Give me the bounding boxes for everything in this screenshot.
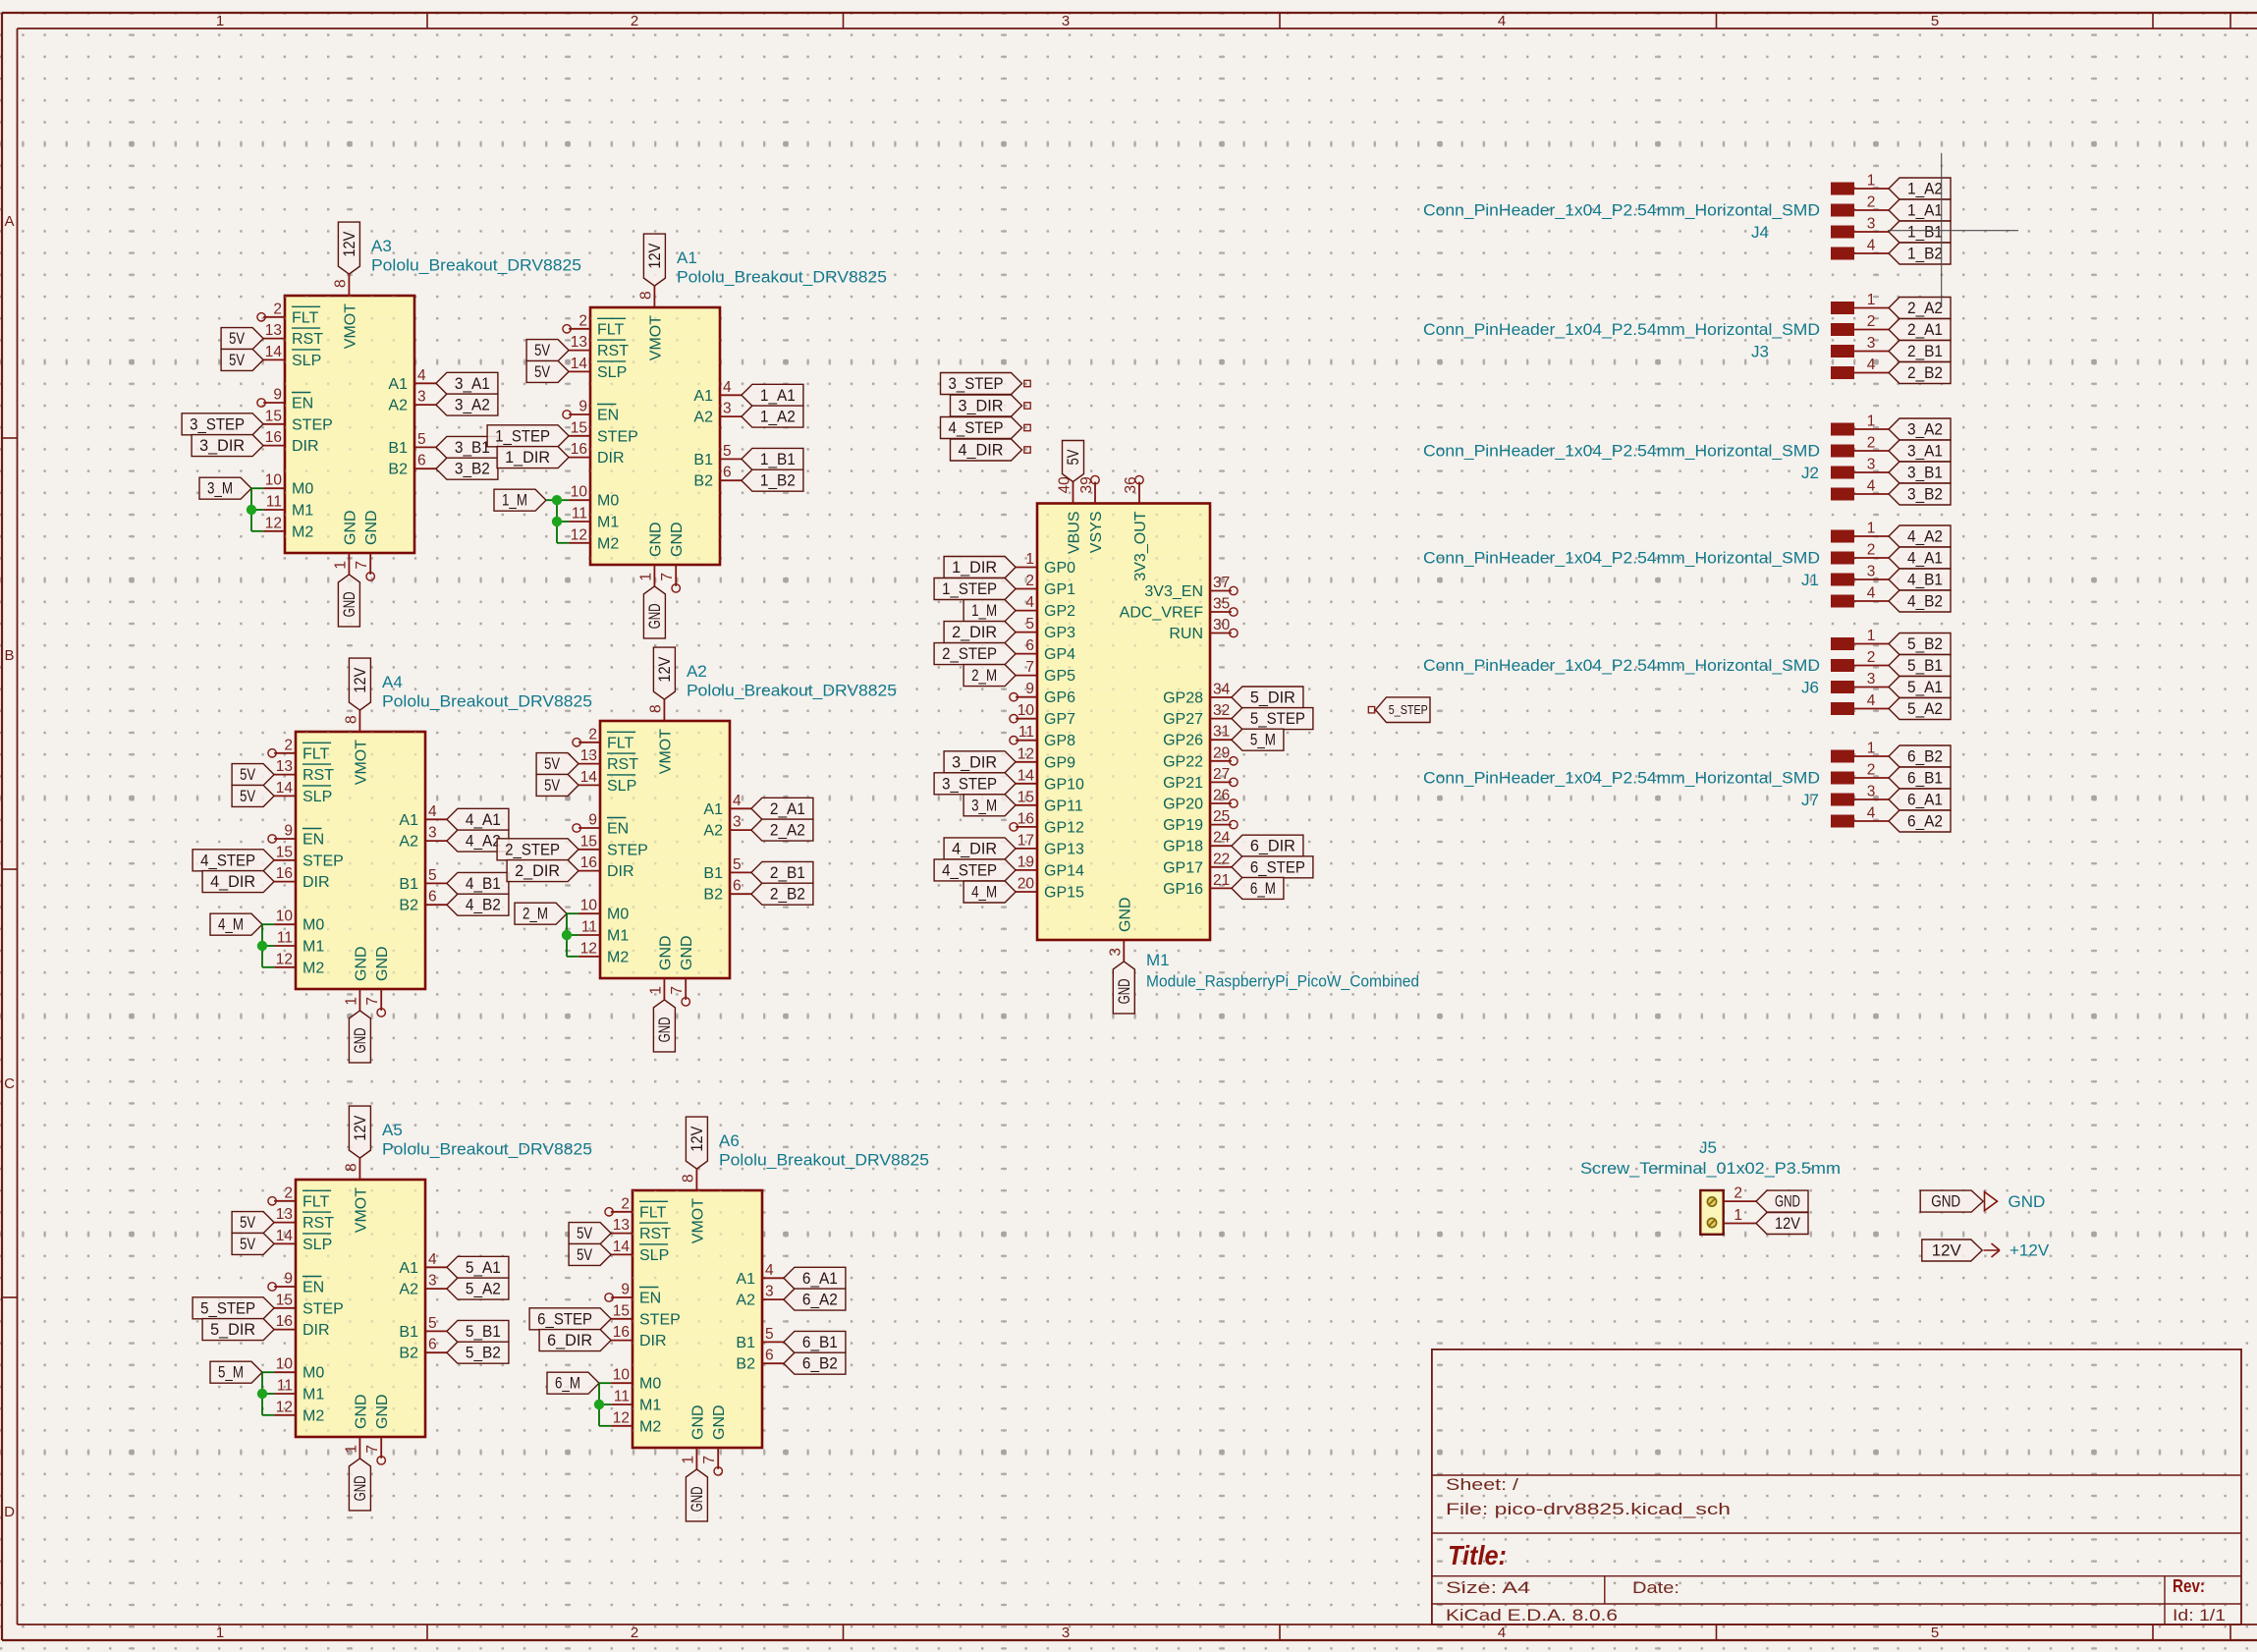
svg-text:7: 7 bbox=[701, 1456, 718, 1464]
svg-text:6: 6 bbox=[733, 878, 742, 895]
svg-text:1: 1 bbox=[1867, 173, 1876, 190]
svg-text:14: 14 bbox=[1018, 767, 1035, 784]
svg-text:Conn_PinHeader_1x04_P2.54mm_Ho: Conn_PinHeader_1x04_P2.54mm_Horizontal_S… bbox=[1423, 769, 1820, 788]
svg-text:VBUS: VBUS bbox=[1067, 512, 1083, 555]
svg-text:12: 12 bbox=[265, 515, 282, 531]
svg-text:ADC_VREF: ADC_VREF bbox=[1120, 605, 1204, 622]
svg-text:Module_RaspberryPi_PicoW_Combi: Module_RaspberryPi_PicoW_Combined bbox=[1146, 972, 1419, 991]
svg-text:GND: GND bbox=[352, 1027, 369, 1053]
svg-text:RST: RST bbox=[292, 331, 323, 348]
svg-text:B2: B2 bbox=[693, 473, 713, 490]
svg-text:4_DIR: 4_DIR bbox=[210, 873, 255, 891]
svg-text:5V: 5V bbox=[544, 755, 560, 773]
svg-text:21: 21 bbox=[1213, 872, 1230, 889]
svg-text:5_M: 5_M bbox=[1250, 732, 1276, 749]
svg-text:SLP: SLP bbox=[292, 353, 321, 369]
svg-text:Conn_PinHeader_1x04_P2.54mm_Ho: Conn_PinHeader_1x04_P2.54mm_Horizontal_S… bbox=[1423, 442, 1820, 461]
svg-text:3_A2: 3_A2 bbox=[1907, 421, 1943, 439]
svg-text:37: 37 bbox=[1213, 575, 1230, 591]
svg-text:GND: GND bbox=[342, 510, 358, 545]
svg-text:3: 3 bbox=[1867, 564, 1876, 580]
svg-text:4: 4 bbox=[428, 1251, 437, 1268]
svg-text:4_STEP: 4_STEP bbox=[949, 419, 1004, 437]
svg-text:5: 5 bbox=[1931, 1624, 1939, 1641]
svg-text:GP5: GP5 bbox=[1044, 668, 1075, 685]
svg-text:3: 3 bbox=[1062, 13, 1070, 29]
svg-text:1_STEP: 1_STEP bbox=[942, 580, 997, 598]
svg-text:5: 5 bbox=[1931, 13, 1939, 29]
svg-text:1_B1: 1_B1 bbox=[760, 451, 796, 468]
svg-text:2_STEP: 2_STEP bbox=[942, 645, 997, 663]
svg-text:10: 10 bbox=[265, 472, 283, 489]
svg-text:1: 1 bbox=[1734, 1207, 1742, 1224]
svg-text:1: 1 bbox=[216, 1624, 224, 1641]
svg-text:3V3_EN: 3V3_EN bbox=[1144, 583, 1203, 600]
svg-text:3: 3 bbox=[1867, 671, 1876, 688]
svg-text:5_M: 5_M bbox=[218, 1364, 244, 1382]
svg-text:GND: GND bbox=[669, 522, 686, 557]
svg-text:15: 15 bbox=[613, 1302, 630, 1319]
svg-text:2_STEP: 2_STEP bbox=[505, 841, 560, 858]
svg-text:1: 1 bbox=[343, 1445, 359, 1454]
svg-text:A5: A5 bbox=[382, 1121, 403, 1139]
svg-text:6: 6 bbox=[723, 465, 732, 481]
svg-text:16: 16 bbox=[1018, 810, 1034, 827]
svg-text:2_B1: 2_B1 bbox=[770, 864, 805, 882]
svg-text:EN: EN bbox=[303, 1280, 324, 1296]
svg-text:KiCad E.D.A. 8.0.6: KiCad E.D.A. 8.0.6 bbox=[1446, 1607, 1618, 1624]
svg-text:40: 40 bbox=[1057, 476, 1073, 494]
svg-text:2: 2 bbox=[1867, 313, 1876, 330]
svg-text:6_M: 6_M bbox=[555, 1375, 580, 1393]
svg-text:GND: GND bbox=[711, 1404, 728, 1440]
svg-text:8: 8 bbox=[680, 1174, 696, 1183]
svg-text:4: 4 bbox=[1867, 585, 1876, 602]
svg-text:5: 5 bbox=[733, 856, 742, 873]
svg-text:4: 4 bbox=[1867, 692, 1876, 709]
svg-text:5_A2: 5_A2 bbox=[1907, 700, 1943, 718]
svg-text:14: 14 bbox=[580, 769, 598, 786]
svg-text:1_B2: 1_B2 bbox=[760, 472, 796, 490]
svg-text:J1: J1 bbox=[1801, 571, 1819, 589]
svg-text:3_STEP: 3_STEP bbox=[942, 775, 997, 793]
svg-text:4: 4 bbox=[417, 367, 426, 384]
svg-text:FLT: FLT bbox=[303, 1193, 329, 1210]
svg-text:2_B1: 2_B1 bbox=[1907, 343, 1943, 360]
svg-text:Sheet: /: Sheet: / bbox=[1446, 1476, 1519, 1494]
svg-text:4: 4 bbox=[1498, 1624, 1506, 1641]
svg-text:14: 14 bbox=[613, 1239, 631, 1255]
svg-text:3: 3 bbox=[428, 825, 437, 842]
svg-text:GND: GND bbox=[1931, 1193, 1960, 1211]
svg-text:FLT: FLT bbox=[639, 1204, 666, 1221]
svg-text:Conn_PinHeader_1x04_P2.54mm_Ho: Conn_PinHeader_1x04_P2.54mm_Horizontal_S… bbox=[1423, 549, 1820, 568]
svg-text:5V: 5V bbox=[534, 342, 550, 359]
svg-text:J4: J4 bbox=[1751, 223, 1769, 242]
svg-text:5V: 5V bbox=[229, 352, 245, 369]
svg-text:7: 7 bbox=[364, 997, 381, 1006]
svg-text:7: 7 bbox=[669, 986, 686, 995]
svg-text:GP26: GP26 bbox=[1163, 733, 1203, 749]
svg-text:6_M: 6_M bbox=[1250, 880, 1276, 898]
svg-text:M0: M0 bbox=[292, 481, 313, 498]
svg-text:1: 1 bbox=[343, 997, 359, 1006]
svg-text:M1: M1 bbox=[303, 1387, 324, 1404]
svg-text:M1: M1 bbox=[1146, 951, 1170, 969]
svg-text:Pololu_Breakout_DRV8825: Pololu_Breakout_DRV8825 bbox=[382, 1140, 592, 1159]
svg-text:3_B1: 3_B1 bbox=[455, 439, 490, 457]
svg-text:7: 7 bbox=[1025, 659, 1034, 676]
svg-text:15: 15 bbox=[276, 1292, 293, 1308]
svg-text:6_B1: 6_B1 bbox=[1907, 770, 1943, 788]
svg-text:STEP: STEP bbox=[292, 416, 333, 433]
svg-text:12V: 12V bbox=[1932, 1242, 1961, 1260]
svg-text:6_A1: 6_A1 bbox=[1907, 792, 1943, 809]
svg-text:2_M: 2_M bbox=[971, 667, 997, 685]
svg-text:5V: 5V bbox=[577, 1225, 592, 1242]
svg-text:A1: A1 bbox=[399, 1260, 418, 1277]
svg-text:3_B1: 3_B1 bbox=[1907, 465, 1943, 482]
svg-text:GND: GND bbox=[1775, 1193, 1800, 1211]
svg-text:1_A2: 1_A2 bbox=[760, 409, 796, 426]
svg-text:1: 1 bbox=[216, 13, 224, 29]
svg-text:STEP: STEP bbox=[303, 853, 344, 869]
svg-text:39: 39 bbox=[1078, 476, 1095, 493]
svg-text:B2: B2 bbox=[703, 887, 723, 904]
svg-text:Id: 1/1: Id: 1/1 bbox=[2173, 1607, 2226, 1624]
svg-text:2_A2: 2_A2 bbox=[770, 822, 805, 840]
svg-text:13: 13 bbox=[613, 1217, 630, 1234]
svg-text:8: 8 bbox=[343, 715, 359, 724]
svg-text:12: 12 bbox=[613, 1409, 630, 1426]
svg-text:1_B1: 1_B1 bbox=[1907, 224, 1943, 242]
svg-text:A2: A2 bbox=[399, 1282, 418, 1298]
svg-text:5V: 5V bbox=[1065, 450, 1082, 466]
svg-text:STEP: STEP bbox=[607, 842, 648, 858]
svg-text:3: 3 bbox=[1867, 216, 1876, 233]
svg-text:11: 11 bbox=[277, 1378, 293, 1395]
svg-text:4: 4 bbox=[1025, 594, 1034, 611]
svg-text:GP27: GP27 bbox=[1163, 711, 1203, 728]
svg-text:M1: M1 bbox=[292, 503, 313, 520]
svg-text:13: 13 bbox=[276, 1206, 293, 1223]
svg-text:RST: RST bbox=[639, 1226, 671, 1242]
svg-text:GND: GND bbox=[657, 935, 674, 970]
svg-text:27: 27 bbox=[1213, 766, 1230, 783]
svg-text:4_A2: 4_A2 bbox=[466, 833, 501, 851]
svg-text:31: 31 bbox=[1213, 724, 1230, 741]
svg-text:SLP: SLP bbox=[597, 364, 627, 381]
svg-text:17: 17 bbox=[1018, 832, 1034, 849]
svg-text:2: 2 bbox=[631, 13, 638, 29]
svg-text:5_B2: 5_B2 bbox=[1907, 635, 1943, 653]
svg-text:25: 25 bbox=[1213, 808, 1230, 825]
svg-text:A2: A2 bbox=[399, 834, 418, 851]
svg-text:3_M: 3_M bbox=[207, 480, 233, 498]
svg-text:GP2: GP2 bbox=[1044, 603, 1075, 620]
svg-text:FLT: FLT bbox=[303, 745, 329, 762]
svg-text:30: 30 bbox=[1213, 617, 1231, 633]
svg-text:11: 11 bbox=[614, 1389, 630, 1405]
svg-text:2: 2 bbox=[1867, 194, 1876, 211]
svg-text:35: 35 bbox=[1213, 596, 1230, 613]
svg-text:2_DIR: 2_DIR bbox=[952, 624, 997, 641]
svg-text:4: 4 bbox=[1867, 805, 1876, 822]
svg-text:DIR: DIR bbox=[292, 438, 319, 455]
svg-text:11: 11 bbox=[1018, 724, 1034, 741]
svg-text:9: 9 bbox=[621, 1282, 630, 1298]
svg-text:4: 4 bbox=[428, 803, 437, 820]
svg-text:2: 2 bbox=[284, 737, 293, 753]
svg-text:12: 12 bbox=[1018, 745, 1034, 762]
svg-text:FLT: FLT bbox=[607, 735, 633, 751]
svg-text:A4: A4 bbox=[382, 673, 403, 691]
svg-text:2: 2 bbox=[1867, 762, 1876, 779]
svg-text:26: 26 bbox=[1213, 788, 1230, 804]
svg-text:11: 11 bbox=[266, 494, 282, 511]
svg-text:16: 16 bbox=[265, 429, 282, 446]
svg-text:6_B2: 6_B2 bbox=[1907, 748, 1943, 766]
svg-text:GP20: GP20 bbox=[1163, 797, 1203, 813]
svg-text:6_B2: 6_B2 bbox=[802, 1355, 838, 1373]
svg-text:8: 8 bbox=[343, 1163, 359, 1172]
svg-text:Pololu_Breakout_DRV8825: Pololu_Breakout_DRV8825 bbox=[371, 256, 581, 275]
svg-text:5_A1: 5_A1 bbox=[1907, 679, 1943, 696]
svg-text:GND: GND bbox=[688, 1486, 706, 1512]
svg-text:GP0: GP0 bbox=[1044, 560, 1075, 577]
svg-text:GP12: GP12 bbox=[1044, 819, 1084, 836]
svg-text:2_B2: 2_B2 bbox=[1907, 364, 1943, 382]
svg-text:EN: EN bbox=[639, 1291, 661, 1307]
svg-text:4_B1: 4_B1 bbox=[466, 875, 501, 893]
svg-text:4: 4 bbox=[723, 379, 732, 396]
svg-text:4_B2: 4_B2 bbox=[466, 897, 501, 914]
svg-text:GP28: GP28 bbox=[1163, 690, 1203, 707]
svg-text:GP17: GP17 bbox=[1163, 859, 1203, 876]
svg-text:4: 4 bbox=[1867, 238, 1876, 254]
svg-text:16: 16 bbox=[571, 441, 587, 458]
svg-text:1: 1 bbox=[1867, 521, 1876, 537]
svg-text:B2: B2 bbox=[388, 462, 408, 478]
svg-text:A2: A2 bbox=[703, 823, 723, 840]
svg-text:M2: M2 bbox=[639, 1418, 661, 1435]
svg-text:4: 4 bbox=[765, 1262, 774, 1279]
svg-text:M2: M2 bbox=[607, 949, 629, 965]
svg-text:3: 3 bbox=[1062, 1624, 1070, 1641]
svg-text:14: 14 bbox=[265, 344, 283, 360]
svg-text:4_DIR: 4_DIR bbox=[952, 840, 997, 857]
svg-text:1: 1 bbox=[1025, 551, 1034, 568]
svg-text:4: 4 bbox=[1498, 13, 1506, 29]
svg-text:7: 7 bbox=[354, 561, 370, 570]
svg-text:GP14: GP14 bbox=[1044, 862, 1084, 879]
svg-text:GND: GND bbox=[374, 946, 391, 981]
svg-text:FLT: FLT bbox=[597, 321, 624, 338]
svg-text:13: 13 bbox=[580, 747, 597, 764]
svg-text:12: 12 bbox=[276, 1399, 293, 1415]
svg-text:2: 2 bbox=[1867, 649, 1876, 666]
svg-text:M0: M0 bbox=[597, 493, 619, 510]
svg-text:10: 10 bbox=[276, 909, 294, 925]
svg-text:4_M: 4_M bbox=[971, 884, 997, 902]
svg-text:RST: RST bbox=[303, 1215, 334, 1232]
svg-text:GP6: GP6 bbox=[1044, 689, 1075, 706]
svg-text:Date:: Date: bbox=[1632, 1579, 1679, 1597]
svg-text:3_A1: 3_A1 bbox=[455, 375, 490, 393]
svg-text:4_A1: 4_A1 bbox=[466, 811, 501, 829]
svg-text:5: 5 bbox=[428, 867, 437, 884]
svg-text:GP22: GP22 bbox=[1163, 753, 1203, 770]
svg-text:GND: GND bbox=[2009, 1192, 2046, 1211]
svg-text:GND: GND bbox=[679, 935, 695, 970]
svg-text:A2: A2 bbox=[687, 662, 707, 681]
svg-text:J7: J7 bbox=[1801, 791, 1819, 809]
svg-text:Title:: Title: bbox=[1448, 1540, 1507, 1570]
svg-text:M0: M0 bbox=[303, 1365, 324, 1382]
svg-text:File: pico-drv8825.kicad_sch: File: pico-drv8825.kicad_sch bbox=[1446, 1501, 1731, 1518]
svg-text:2_DIR: 2_DIR bbox=[515, 862, 560, 880]
svg-text:GND: GND bbox=[646, 603, 664, 629]
svg-text:3: 3 bbox=[1107, 948, 1124, 957]
svg-text:8: 8 bbox=[332, 279, 349, 288]
svg-text:RST: RST bbox=[607, 756, 638, 773]
svg-text:2_B2: 2_B2 bbox=[770, 886, 805, 904]
svg-text:A1: A1 bbox=[388, 376, 408, 393]
svg-text:16: 16 bbox=[276, 1313, 293, 1330]
svg-text:EN: EN bbox=[303, 832, 324, 849]
svg-text:1_A2: 1_A2 bbox=[1907, 181, 1943, 198]
svg-text:VSYS: VSYS bbox=[1088, 512, 1105, 554]
svg-text:5_A1: 5_A1 bbox=[466, 1259, 501, 1277]
svg-text:4_STEP: 4_STEP bbox=[200, 852, 255, 869]
svg-text:2_A1: 2_A1 bbox=[1907, 321, 1943, 339]
svg-text:VMOT: VMOT bbox=[657, 729, 674, 774]
svg-text:VMOT: VMOT bbox=[353, 740, 369, 785]
svg-text:GND: GND bbox=[363, 510, 380, 545]
svg-text:RUN: RUN bbox=[1169, 626, 1203, 642]
svg-text:A6: A6 bbox=[719, 1131, 740, 1150]
svg-text:1: 1 bbox=[637, 573, 654, 581]
svg-text:6_A2: 6_A2 bbox=[802, 1292, 838, 1309]
svg-text:4_DIR: 4_DIR bbox=[959, 442, 1004, 460]
svg-text:2: 2 bbox=[1025, 573, 1034, 589]
svg-text:12V: 12V bbox=[341, 232, 358, 257]
svg-text:6: 6 bbox=[428, 889, 437, 906]
svg-text:B2: B2 bbox=[399, 898, 418, 914]
svg-text:3_STEP: 3_STEP bbox=[949, 375, 1004, 393]
svg-text:D: D bbox=[4, 1504, 15, 1520]
svg-text:6_STEP: 6_STEP bbox=[1250, 858, 1305, 876]
svg-text:9: 9 bbox=[284, 823, 293, 840]
svg-text:GND: GND bbox=[374, 1394, 391, 1429]
svg-text:Size: A4: Size: A4 bbox=[1446, 1579, 1530, 1597]
svg-text:3_DIR: 3_DIR bbox=[199, 437, 245, 455]
svg-text:4: 4 bbox=[1867, 357, 1876, 373]
svg-text:SLP: SLP bbox=[607, 778, 636, 795]
svg-text:19: 19 bbox=[1018, 854, 1034, 870]
svg-text:2_M: 2_M bbox=[523, 906, 548, 923]
svg-text:M0: M0 bbox=[303, 917, 324, 934]
svg-text:STEP: STEP bbox=[597, 428, 638, 445]
svg-text:GND: GND bbox=[689, 1404, 706, 1440]
svg-text:7: 7 bbox=[364, 1445, 381, 1454]
svg-text:B: B bbox=[4, 647, 14, 664]
svg-text:12: 12 bbox=[276, 951, 293, 967]
svg-text:10: 10 bbox=[1018, 702, 1035, 719]
svg-text:GND: GND bbox=[1117, 897, 1133, 932]
svg-text:3: 3 bbox=[723, 401, 732, 417]
svg-text:6: 6 bbox=[1025, 637, 1034, 654]
svg-text:EN: EN bbox=[292, 396, 313, 413]
svg-text:9: 9 bbox=[588, 812, 597, 829]
svg-text:5_STEP: 5_STEP bbox=[200, 1299, 255, 1317]
svg-text:3_A1: 3_A1 bbox=[1907, 443, 1943, 461]
svg-text:2: 2 bbox=[284, 1184, 293, 1201]
svg-text:24: 24 bbox=[1213, 830, 1231, 847]
svg-text:GP13: GP13 bbox=[1044, 841, 1084, 857]
svg-text:5: 5 bbox=[765, 1326, 774, 1343]
svg-text:2: 2 bbox=[631, 1624, 638, 1641]
svg-text:GP8: GP8 bbox=[1044, 733, 1075, 749]
svg-text:15: 15 bbox=[580, 833, 597, 850]
svg-text:J3: J3 bbox=[1751, 343, 1769, 361]
svg-text:12V: 12V bbox=[1775, 1215, 1800, 1233]
svg-text:B1: B1 bbox=[399, 1324, 418, 1341]
svg-text:6_A2: 6_A2 bbox=[1907, 813, 1943, 831]
svg-text:C: C bbox=[4, 1075, 15, 1092]
svg-text:3_DIR: 3_DIR bbox=[952, 753, 997, 771]
svg-text:9: 9 bbox=[284, 1271, 293, 1288]
svg-text:10: 10 bbox=[613, 1367, 631, 1384]
svg-text:5V: 5V bbox=[240, 1214, 255, 1232]
svg-text:6_A1: 6_A1 bbox=[802, 1270, 838, 1288]
svg-text:DIR: DIR bbox=[597, 450, 625, 467]
svg-text:5_B2: 5_B2 bbox=[466, 1345, 501, 1362]
svg-text:5V: 5V bbox=[544, 777, 560, 795]
svg-text:EN: EN bbox=[607, 821, 629, 838]
svg-text:Rev:: Rev: bbox=[2173, 1576, 2205, 1596]
svg-text:5: 5 bbox=[1025, 616, 1034, 633]
svg-text:12: 12 bbox=[571, 526, 587, 543]
svg-text:A: A bbox=[4, 213, 14, 230]
svg-text:32: 32 bbox=[1213, 702, 1230, 719]
svg-text:3: 3 bbox=[1867, 457, 1876, 473]
svg-text:5_B1: 5_B1 bbox=[466, 1323, 501, 1341]
svg-text:2: 2 bbox=[1867, 435, 1876, 452]
svg-text:GP9: GP9 bbox=[1044, 754, 1075, 771]
svg-text:3: 3 bbox=[417, 389, 426, 406]
svg-text:B2: B2 bbox=[399, 1346, 418, 1362]
svg-text:5V: 5V bbox=[577, 1246, 592, 1264]
svg-text:GND: GND bbox=[352, 1475, 369, 1501]
svg-text:A1: A1 bbox=[703, 801, 723, 818]
svg-text:3: 3 bbox=[1867, 784, 1876, 800]
svg-text:1: 1 bbox=[1867, 413, 1876, 430]
svg-text:9: 9 bbox=[1025, 681, 1034, 697]
svg-text:M1: M1 bbox=[639, 1398, 661, 1414]
svg-text:14: 14 bbox=[276, 780, 294, 797]
svg-text:VMOT: VMOT bbox=[353, 1187, 369, 1233]
svg-text:SLP: SLP bbox=[303, 1237, 332, 1253]
svg-text:GND: GND bbox=[341, 591, 358, 617]
svg-text:1_STEP: 1_STEP bbox=[495, 427, 550, 445]
svg-text:GND: GND bbox=[647, 522, 664, 557]
svg-text:4_A1: 4_A1 bbox=[1907, 550, 1943, 568]
svg-text:1_A1: 1_A1 bbox=[760, 387, 796, 405]
svg-text:13: 13 bbox=[265, 322, 282, 339]
svg-text:34: 34 bbox=[1213, 682, 1231, 698]
svg-text:1_A1: 1_A1 bbox=[1907, 202, 1943, 220]
